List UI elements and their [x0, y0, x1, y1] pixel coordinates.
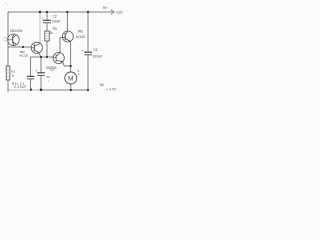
svg-text:V: V [78, 72, 80, 76]
wire TR4 emitter to motor node [63, 62, 71, 66]
wire base of TR1 to TR2 (y=47) [8, 46, 31, 48]
junction node dots bottom rail [30, 89, 32, 91]
junction node dot base wire [22, 46, 24, 48]
capacitor C2 plates [43, 19, 51, 21]
svg-text:B2: B2 [100, 83, 104, 87]
wire R3 to node at y57 [46, 41, 48, 57]
wire left vertical from rail to R1 [7, 12, 9, 66]
wire motor node to motor [70, 66, 72, 72]
scan speckles [48, 80, 49, 81]
svg-text:100uF: 100uF [92, 55, 102, 59]
wire C4 to bottom rail [40, 76, 42, 91]
resistor R3 shading [45, 34, 49, 39]
wire TR3 base to TR4 collector [60, 38, 63, 53]
arrowhead supply output [111, 10, 114, 15]
wire C4 branch down [40, 57, 42, 73]
resistor R1 shading [7, 70, 10, 77]
svg-text:+: + [35, 69, 37, 73]
svg-text:1k: 1k [50, 31, 54, 35]
svg-text:100uF: 100uF [52, 20, 61, 24]
resistor R1 [6, 66, 10, 80]
capacitor C1 plates [27, 75, 34, 77]
svg-text:AC128: AC128 [76, 35, 85, 39]
svg-text:2N2926: 2N2926 [10, 29, 23, 33]
motor M1 [65, 72, 77, 84]
transistor TR3 emitter arrow [68, 40, 70, 42]
wire left vertical R1 to bottom rail [7, 80, 9, 92]
transistor TR4 emitter arrow [61, 60, 63, 62]
transistor TR1 emitter arrow [15, 43, 17, 45]
svg-text:+12V: +12V [115, 11, 123, 15]
wire emitter bus y=57 [31, 56, 54, 58]
svg-text:TR3: TR3 [77, 30, 83, 34]
transistor TR2 [31, 42, 42, 57]
svg-text:32: 32 [47, 75, 51, 79]
wire TR3 collector from rail [66, 12, 68, 31]
wire right branch rail to C3 [87, 12, 89, 52]
svg-text:>-4.5V: >-4.5V [106, 88, 118, 92]
wire C2 to R3 [46, 23, 48, 31]
capacitor C3 plates [84, 51, 92, 53]
wire bottom ground rail faint left [8, 89, 42, 91]
junction node dots top rail [22, 11, 89, 91]
svg-text:AC125: AC125 [19, 54, 28, 58]
wire TR3 emitter down to motor node [69, 41, 72, 66]
capacitor C4 plates [37, 72, 45, 74]
wire C3 to bottom rail [87, 55, 89, 90]
wire motor to bottom rail [70, 84, 72, 90]
svg-text:C3: C3 [93, 48, 97, 52]
wire C2 branch rail to cap [46, 12, 48, 20]
svg-text:0.05uF: 0.05uF [14, 85, 27, 89]
transistor TR2 emitter arrow [37, 51, 39, 53]
wire bottom ground rail [42, 89, 88, 91]
junction node dot motor node [70, 65, 72, 67]
transistor TR3 [62, 31, 73, 42]
wire C1 to bottom rail [30, 79, 32, 90]
svg-text:C4: C4 [50, 68, 54, 72]
junction node dots emitter bus [40, 56, 42, 58]
svg-text:C2: C2 [53, 15, 57, 19]
wire TR2 collector (faint) [39, 12, 41, 43]
svg-text:M: M [68, 76, 74, 83]
transistor TR1 [8, 34, 20, 46]
transistor TR4 [53, 52, 64, 63]
wire top supply rail [8, 11, 113, 13]
resistor R3 [45, 31, 50, 41]
svg-text:+: + [41, 17, 43, 21]
svg-text:R3: R3 [53, 27, 57, 31]
light arrows at TR1 [4, 37, 7, 42]
wire C1 branch down [30, 57, 32, 76]
svg-text:+: + [82, 49, 84, 53]
